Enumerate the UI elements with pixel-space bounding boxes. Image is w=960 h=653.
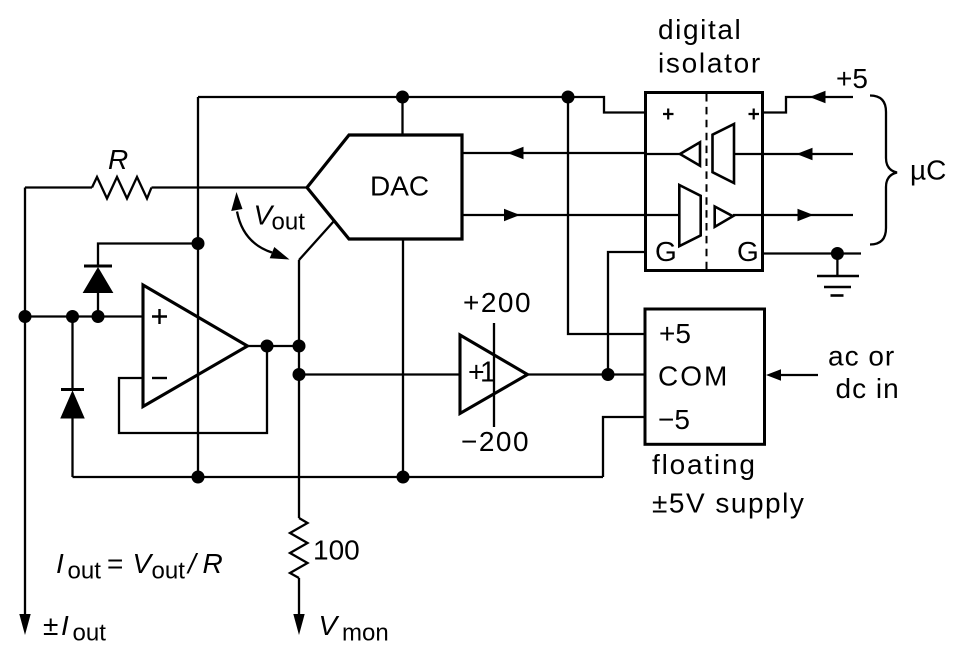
svg-text:DAC: DAC (370, 171, 429, 202)
svg-text:R: R (203, 548, 223, 579)
diode upper (84, 268, 113, 293)
arrow Vmon down (293, 614, 304, 635)
wire feedback loop (119, 346, 267, 433)
svg-text:out: out (73, 620, 107, 647)
wire DAC output diagonal (299, 221, 334, 260)
svg-text:out: out (272, 209, 306, 236)
svg-text:G: G (655, 236, 677, 267)
buffer +1 (460, 335, 528, 414)
arrow out of DAC lower (504, 209, 520, 221)
svg-text:±5V supply: ±5V supply (652, 488, 805, 519)
wire bottom rail (73, 476, 604, 478)
wire buffer supply rail (493, 323, 495, 427)
wire R output horizontal (25, 186, 307, 188)
svg-text:I: I (61, 610, 69, 641)
wire buffer input (299, 373, 460, 375)
op-amp plus symbol (152, 309, 167, 324)
diode upper cathode bar (84, 265, 112, 268)
svg-text:mon: mon (342, 620, 389, 647)
wire top rail (198, 97, 646, 113)
wire DAC to isolator upper (462, 152, 646, 154)
floating supply box (645, 309, 765, 444)
svg-text:digital: digital (658, 14, 742, 45)
wire DAC top pin (401, 97, 403, 135)
wire upper diode cathode up and over (98, 244, 198, 267)
svg-text:+5: +5 (836, 63, 868, 94)
wire buffer output to COM (528, 373, 646, 375)
svg-text:µC: µC (910, 155, 946, 186)
svg-text:out: out (68, 558, 102, 585)
isolator plus right (749, 109, 760, 120)
svg-text:out: out (152, 558, 186, 585)
resistor R (92, 177, 152, 199)
wire left rail down to Iout (24, 188, 26, 616)
wire isolator right +5 step (763, 97, 854, 113)
svg-text:+200: +200 (463, 287, 532, 318)
DAC (307, 135, 462, 239)
arrowheads (19, 91, 825, 635)
wire -5 pin to bottom rail (603, 417, 645, 477)
wire lower diode from plus node (71, 317, 73, 390)
isolator channel2 output triangle (715, 207, 733, 227)
svg-text:floating: floating (652, 449, 757, 480)
svg-text:−200: −200 (461, 426, 530, 457)
wire lower diode anode down (71, 418, 73, 477)
wire +5 rail to floating supply (568, 97, 645, 334)
svg-text:ac or: ac or (828, 341, 895, 372)
isolation barrier dashed (706, 94, 708, 269)
digital isolator box (646, 93, 763, 271)
wire left vertical bus x=198 (197, 97, 199, 477)
wire upper diode to plus node (97, 293, 99, 317)
ground stub (836, 254, 838, 277)
ground (817, 276, 859, 296)
arrow into DAC upper (508, 147, 524, 159)
arrow +5 into isolator (810, 91, 826, 103)
svg-text:dc in: dc in (836, 373, 900, 404)
arrow uC to isolator middle (797, 148, 813, 160)
Vout measure arc (237, 212, 272, 253)
wire isolator right G (763, 252, 862, 254)
svg-text:isolator: isolator (658, 48, 762, 79)
resistor 100 (290, 518, 308, 578)
wire DAC bottom pin (402, 239, 404, 477)
op-amp minus symbol (152, 377, 167, 379)
svg-text:COM: COM (658, 361, 729, 392)
arrow isolator to uC lower (798, 209, 814, 221)
wire isolator right middle (763, 153, 854, 155)
arrow ac dc into supply (766, 369, 781, 380)
isolator channel1 output triangle (680, 142, 700, 165)
arrow Iout down (19, 614, 30, 635)
wire DAC to isolator lower (462, 214, 646, 216)
diode lower cathode bar (61, 388, 84, 391)
diode lower (61, 392, 84, 419)
isolator channel1 input trapezoid (713, 124, 735, 183)
isolator plus left (663, 109, 674, 120)
isolator channel2 input trapezoid (679, 185, 700, 246)
svg-text:+5: +5 (659, 318, 691, 349)
svg-text:±: ± (43, 610, 58, 641)
svg-text:/: / (186, 548, 199, 579)
brace uC (870, 96, 897, 245)
svg-text:R: R (108, 144, 128, 175)
svg-text:G: G (737, 236, 759, 267)
wire isolator right lower (763, 214, 854, 216)
isolator inner wires (646, 154, 763, 215)
svg-text:V: V (133, 548, 154, 579)
op-amp U1 (143, 285, 248, 407)
wire isolator left G to COM (608, 252, 646, 375)
svg-text:=: = (107, 548, 123, 579)
svg-text:V: V (319, 610, 340, 641)
svg-text:−5: −5 (658, 404, 690, 435)
svg-text:+1: +1 (468, 357, 496, 389)
svg-text:I: I (56, 548, 64, 579)
wire DAC output vertical x=299 (298, 260, 300, 615)
svg-text:100: 100 (313, 535, 360, 566)
wire op-amp output (248, 345, 300, 347)
wire ac dc input (781, 374, 818, 376)
wire op-amp plus input (25, 315, 143, 317)
